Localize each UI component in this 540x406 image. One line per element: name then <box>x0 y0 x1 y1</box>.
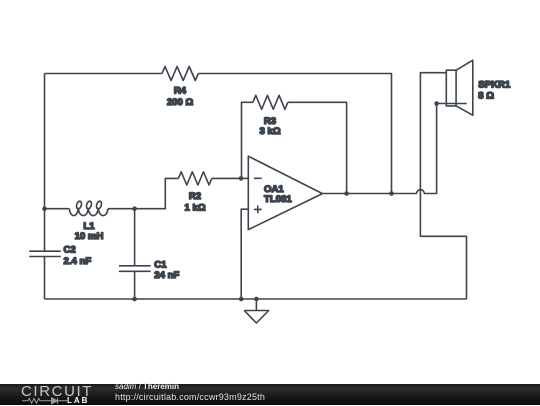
wire left rail top segment <box>44 74 46 252</box>
wire R3 feedback loop left <box>242 102 253 178</box>
wire top rail right of R4 <box>198 74 391 194</box>
op-amp OA1 noninverting input plus symbol <box>254 206 262 214</box>
svg-text:C1: C1 <box>154 259 167 270</box>
wire op-amp output with hop <box>322 104 436 194</box>
wire C1 bottom <box>134 271 136 299</box>
wire R3 right to output <box>288 102 347 193</box>
wire left rail bottom segment <box>44 257 46 300</box>
logo doodle <box>21 396 71 406</box>
speaker SPKR1 <box>446 70 456 106</box>
wire bottom rail <box>45 298 467 300</box>
wire C1 branch top <box>134 209 136 266</box>
url text <box>115 392 265 402</box>
logo CIRCUIT <box>21 383 93 400</box>
ground <box>244 299 269 323</box>
wire speaker bottom lead <box>437 103 467 105</box>
capacitor C2 <box>29 251 61 256</box>
node L1 right <box>132 206 137 211</box>
wire speaker top lead and return <box>420 73 466 299</box>
svg-text:R2: R2 <box>189 191 201 202</box>
svg-text:TL081: TL081 <box>264 194 292 205</box>
node R4 output <box>389 191 394 196</box>
resistor R3 <box>253 95 288 109</box>
node inverting input <box>239 176 244 181</box>
svg-text:8 Ω: 8 Ω <box>478 91 494 102</box>
credit text <box>115 382 179 391</box>
footer bar <box>0 384 540 405</box>
wire L1 branch left <box>45 208 70 210</box>
inductor L1 <box>69 201 107 215</box>
svg-text:2.4 nF: 2.4 nF <box>64 256 92 267</box>
svg-text:R4: R4 <box>174 85 187 96</box>
node speaker bottom <box>434 101 439 106</box>
svg-text:C2: C2 <box>64 245 76 256</box>
op-amp OA1 <box>248 156 322 229</box>
wire noninverting input <box>241 209 248 299</box>
resistor R4 <box>162 67 198 81</box>
op-amp OA1 inverting input minus symbol <box>254 177 262 179</box>
svg-text:1 kΩ: 1 kΩ <box>184 203 205 214</box>
svg-text:SPKR1: SPKR1 <box>478 79 511 90</box>
wire R2 to inverting input <box>212 177 249 179</box>
resistor R2 <box>178 172 211 185</box>
logo LAB <box>67 396 89 405</box>
svg-text:3 kΩ: 3 kΩ <box>259 126 280 137</box>
node noninverting rail <box>239 297 244 302</box>
wire top rail left of R4 <box>45 73 163 75</box>
wire L1 to R2 corner <box>108 178 179 208</box>
node ground stem <box>254 297 259 302</box>
svg-text:200 Ω: 200 Ω <box>167 97 194 108</box>
svg-text:24 nF: 24 nF <box>154 270 179 281</box>
node L1 left <box>42 206 47 211</box>
node C1 bottom <box>132 297 137 302</box>
speaker SPKR1 horn <box>456 60 473 115</box>
capacitor C1 <box>119 266 151 272</box>
svg-text:10 mH: 10 mH <box>75 231 104 242</box>
node R3 output <box>344 191 349 196</box>
